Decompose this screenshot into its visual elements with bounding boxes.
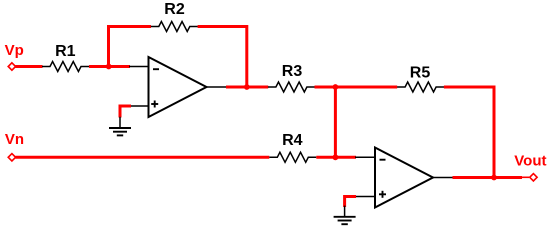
svg-text:R3: R3 <box>282 63 303 80</box>
op-amp U2 <box>375 148 433 208</box>
resistor R1 <box>42 62 89 72</box>
op-amp U1 <box>149 57 207 117</box>
resistor R4 <box>269 152 316 162</box>
ground G1 <box>109 117 131 136</box>
junction node B <box>244 84 250 90</box>
node Vn terminal <box>8 154 15 161</box>
wire R5 right and down to output node E <box>444 87 494 178</box>
wire thin lead to Vout terminal <box>521 176 529 178</box>
wire Vn to R4 <box>16 156 270 159</box>
wire op-amp U2 non-inverting input lead <box>356 196 376 198</box>
svg-text:Vn: Vn <box>5 131 24 148</box>
wire node A up and right to R2 <box>109 27 152 67</box>
svg-text:Vp: Vp <box>5 42 24 59</box>
wire U2 output red to Vout <box>453 176 523 179</box>
node Vp terminal <box>8 63 15 70</box>
wire node C down to node D <box>334 87 337 157</box>
wire U2 output (black) <box>433 177 453 179</box>
svg-text:Vout: Vout <box>514 153 546 170</box>
wire R1 to node A <box>89 65 130 68</box>
svg-text:R4: R4 <box>282 132 303 149</box>
junction node C <box>333 84 339 90</box>
wire R2 right and down to node B <box>198 27 247 88</box>
svg-text:R2: R2 <box>164 1 185 18</box>
wire U1 output red to R3 <box>226 86 268 89</box>
wire R3 to R5 through node C <box>315 86 398 89</box>
wire op-amp U1 inverting input lead <box>129 66 149 68</box>
junction node D <box>333 154 339 160</box>
wire op-amp U2 inverting input lead <box>355 156 375 158</box>
node Vout terminal <box>530 174 537 181</box>
svg-text:R5: R5 <box>410 64 431 81</box>
junction node A <box>106 64 112 70</box>
resistor R3 <box>268 82 315 92</box>
resistor R2 <box>151 22 198 32</box>
wire Vp to R1 <box>16 65 43 68</box>
wire ground elbow to U2 plus input (red) <box>345 197 356 208</box>
wire op-amp U1 non-inverting input lead <box>131 105 149 107</box>
svg-text:R1: R1 <box>55 43 76 60</box>
wire U1 output (black) <box>207 86 227 88</box>
resistor R5 <box>397 82 444 92</box>
wire ground elbow to U1 plus input (red) <box>120 106 131 118</box>
junction node E <box>491 175 497 181</box>
ground G2 <box>334 206 356 225</box>
wire R4 through node D to U2 <box>316 156 356 159</box>
